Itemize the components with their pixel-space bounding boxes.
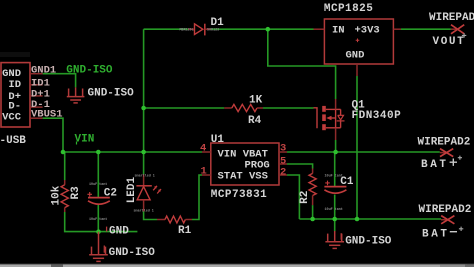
svg-text:1: 1 [201, 166, 207, 178]
USB connector J1 box [0, 63, 30, 147]
wire VBUS1 pin to VIN bus [43, 118, 63, 152]
diode D1 [180, 17, 225, 35]
svg-text:GND-ISO: GND-ISO [109, 247, 156, 259]
wirepad BAT- [419, 204, 472, 241]
IC U1 MCP73831 box [211, 134, 279, 201]
MCP1825 pin GND [356, 64, 358, 76]
wire top net VBUS->D1->IN [144, 28, 314, 30]
svg-text:GND-ISO: GND-ISO [345, 235, 392, 247]
svg-text:R4: R4 [248, 115, 262, 127]
wire C1 ground drop [334, 219, 336, 231]
USB pin D+1 [30, 88, 50, 100]
ground GND-ISO symbol top-left [67, 87, 85, 103]
svg-text:R2: R2 [299, 191, 311, 204]
USB pin D-1 [30, 99, 50, 111]
MCP1825 pin IN [314, 28, 325, 30]
wire gate net y=108 [144, 107, 314, 109]
svg-text:2: 2 [280, 167, 286, 179]
wire MCP1825 GND down [356, 76, 358, 219]
svg-text:MCP73831: MCP73831 [211, 189, 267, 201]
ground GND-ISO symbol bottom-left [89, 232, 108, 262]
capacitor C2 [87, 183, 117, 222]
MCP1825 pin OUT [393, 28, 401, 30]
svg-text:BAT: BAT [422, 229, 450, 241]
svg-text:10uF tant: 10uF tant [325, 208, 343, 212]
bottom window edge bar [0, 263, 474, 267]
svg-text:smartled 1: smartled 1 [135, 174, 155, 179]
wire BAT+ net U1 pin3 to wirepad [287, 140, 440, 152]
wire R1 to U1 pin1 [192, 175, 202, 220]
ground GND-ISO symbol bottom-right [325, 231, 344, 248]
svg-text:WIREPAD2: WIREPAD2 [429, 12, 474, 24]
svg-text:3: 3 [280, 143, 286, 155]
wire LED1 bottom to R1 [144, 212, 157, 220]
regulator U2 MCP1825 box [324, 3, 394, 64]
svg-text:GND: GND [109, 225, 129, 237]
svg-text:GND-ISO: GND-ISO [88, 87, 135, 99]
svg-text:10uF tant: 10uF tant [89, 183, 107, 187]
ground label GND-ISO (grey, bottom-right) [341, 233, 392, 247]
svg-text:D1: D1 [211, 17, 225, 29]
resistor R3 [51, 180, 82, 212]
svg-text:SOD123: SOD123 [207, 29, 219, 33]
wire R3 top [64, 152, 66, 180]
U1 pin 2 [279, 167, 287, 179]
wire C2 bottom [97, 205, 99, 232]
resistor R4 [224, 95, 263, 127]
svg-text:VCC: VCC [2, 111, 22, 123]
svg-text:5: 5 [280, 155, 286, 167]
svg-text:MCP1825: MCP1825 [324, 3, 373, 15]
wire Q1 source branch from top junction [268, 29, 336, 99]
transistor Q1 FDN340P [314, 99, 402, 140]
svg-text:-USB: -USB [0, 135, 26, 147]
svg-text:4: 4 [200, 143, 206, 155]
capacitor C1 [324, 175, 354, 213]
svg-text:R1: R1 [178, 225, 192, 237]
svg-text:+3V3: +3V3 [355, 24, 380, 36]
svg-text:MBR120L: MBR120L [180, 29, 194, 33]
net label VIN [75, 133, 95, 145]
wire VSS net pin2 down [287, 175, 299, 219]
wire R2 bottom [312, 205, 314, 219]
USB pin VBUS1 [30, 109, 63, 121]
svg-text:IN: IN [332, 24, 345, 36]
svg-text:VBUS1: VBUS1 [31, 109, 63, 121]
svg-text:WIREPAD2: WIREPAD2 [418, 136, 471, 148]
wirepad VOUT [429, 12, 474, 48]
svg-text:STAT VSS: STAT VSS [218, 171, 268, 183]
wire vertical VBUS x=143.6 [143, 29, 145, 152]
U1 pin 4 [200, 143, 211, 155]
wirepad BAT+ [418, 136, 471, 171]
svg-text:ID: ID [8, 79, 21, 91]
ground label GND-ISO (grey, bottom-left) [104, 246, 155, 260]
net label GND (grey, bottom-left) [107, 225, 130, 237]
U1 pin 3 [279, 143, 287, 155]
resistor R2 [299, 169, 316, 206]
svg-text:C2: C2 [104, 187, 117, 199]
svg-text:GND-ISO: GND-ISO [66, 65, 113, 77]
svg-text:1K: 1K [249, 95, 263, 107]
wire PROG net pin5 to R2 [287, 164, 313, 169]
U1 pin 1 [201, 166, 211, 178]
svg-text:smartled 1: smartled 1 [134, 209, 154, 214]
svg-text:R3: R3 [70, 186, 82, 200]
svg-text:10uF tant: 10uF tant [325, 175, 343, 179]
svg-text:GND: GND [346, 50, 365, 62]
wire GND1 pin to ground [43, 74, 76, 88]
wire VIN bus y=152 [63, 151, 202, 153]
svg-text:FDN340P: FDN340P [352, 110, 402, 122]
U1 pin 5 [279, 155, 287, 167]
wire C2 top [97, 152, 99, 197]
svg-text:WIREPAD2: WIREPAD2 [419, 204, 472, 216]
svg-text:10uF tant: 10uF tant [89, 218, 107, 222]
svg-text:10k: 10k [51, 185, 63, 205]
svg-text:VOUT: VOUT [433, 36, 466, 48]
svg-text:VIN: VIN [75, 133, 95, 145]
wire R3 bottom to GND bus [65, 212, 138, 232]
wire LED1 top [143, 152, 145, 174]
resistor R1 [157, 216, 192, 237]
svg-text:LED1: LED1 [126, 176, 138, 203]
svg-text:BAT: BAT [421, 159, 449, 171]
LED LED1 [126, 174, 161, 214]
wire VOUT net MCP1825 out [401, 28, 451, 30]
wire GND-ISO bus y=219 [299, 218, 441, 220]
faint artifact top-left [0, 52, 30, 57]
wire C1 bottom [334, 195, 336, 220]
svg-text:U1: U1 [211, 134, 225, 146]
USB pin GND1 [30, 65, 56, 77]
wire C1 top [334, 152, 336, 186]
USB pin ID1 [30, 78, 50, 90]
svg-text:GND1: GND1 [31, 65, 56, 77]
